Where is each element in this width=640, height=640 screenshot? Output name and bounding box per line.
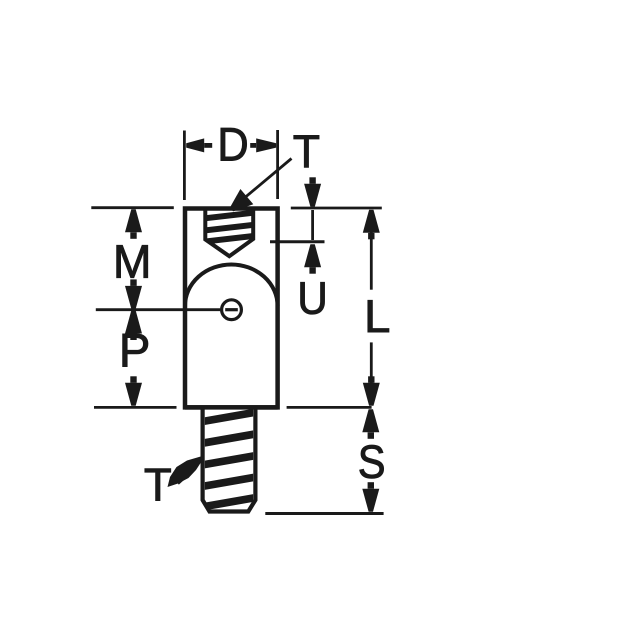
wire: bottom T leader stub [177, 473, 188, 483]
arrow: M bottom (at hole center) [125, 286, 142, 309]
label T top [294, 135, 319, 167]
label T bottom [145, 469, 171, 501]
wire: U dim line through face [311, 210, 314, 240]
wire: D extension line right [276, 130, 279, 199]
label P [123, 334, 148, 367]
wire: top T leader line [238, 159, 292, 204]
cross hole center dash [225, 308, 238, 311]
arrow: P top (at hole center) [125, 311, 142, 334]
wire: L dim line lower [370, 342, 373, 383]
wire: D extension line left [183, 131, 186, 201]
body: rectangular shank of part [185, 209, 278, 408]
label L [368, 300, 389, 332]
wire: hole center line [96, 308, 221, 311]
wire: L dim line upper [370, 232, 373, 290]
arrow: S top [362, 409, 379, 432]
arrow: top T leader head [230, 189, 253, 211]
wire: top face extension line left (M datum) [91, 206, 174, 209]
threaded stud outline [203, 408, 256, 512]
tapped hole pocket outline [205, 208, 253, 256]
arrow: L bottom [363, 383, 380, 406]
arrow: bottom T leader head [168, 456, 203, 487]
arrow: M top [125, 209, 142, 232]
label U [301, 282, 325, 314]
arrow: D left [186, 138, 204, 152]
tapped hole thread hatching [205, 210, 253, 245]
arrow: D right [256, 138, 276, 152]
label D [221, 128, 247, 160]
arrow: U top (above face) [304, 184, 321, 207]
arrow: P bottom [125, 383, 142, 406]
wire: stud end extension line (S datum) [265, 512, 383, 515]
dome: internal rounded boss arc [185, 265, 278, 307]
stud thread hatching [205, 409, 254, 511]
arrow: U bottom (below ref line) [304, 244, 321, 267]
label M [117, 245, 148, 277]
arrow: S bottom [362, 489, 379, 512]
wire: top face extension line right (to L dimension) [291, 207, 382, 210]
wire: body bottom extension line right (L/S datum) [287, 406, 372, 409]
arrow: L top [363, 210, 380, 233]
wire: body bottom edge redraw over stud [185, 405, 278, 410]
label S [360, 445, 384, 478]
wire: U depth reference line [270, 240, 325, 243]
cross hole circle [222, 300, 242, 320]
wire: body bottom extension line left (P datum) [94, 406, 177, 409]
